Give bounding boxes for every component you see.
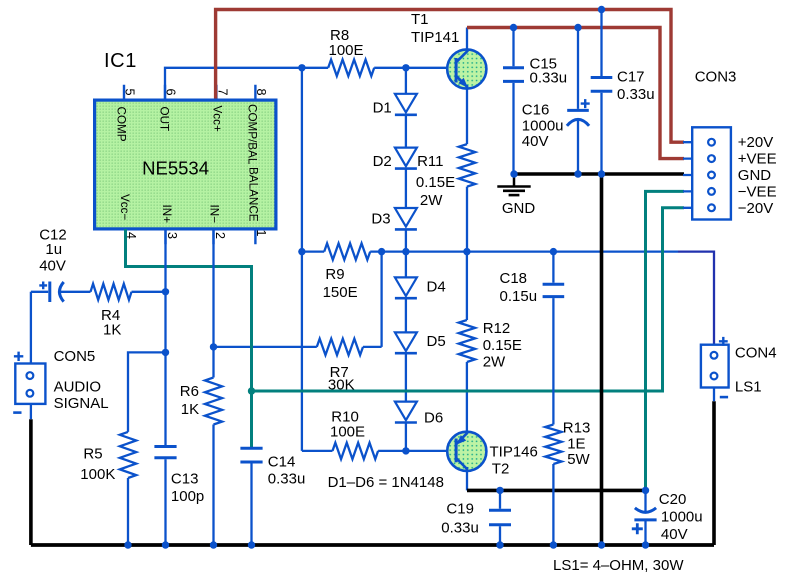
svg-text:1E: 1E (567, 436, 585, 453)
wire R12 to T2 emitter (466, 362, 468, 434)
pin number 1 (254, 230, 268, 237)
wire OUT column x=302 down to R10 row (301, 68, 303, 451)
wire R10 left lead (302, 450, 333, 452)
svg-text:7: 7 (215, 89, 229, 96)
svg-text:LS1: LS1 (735, 379, 762, 396)
svg-text:40V: 40V (39, 258, 66, 275)
svg-text:AUDIO: AUDIO (54, 379, 102, 396)
capacitor C14 (240, 448, 305, 545)
node rail C13 (162, 541, 169, 548)
svg-text:CON4: CON4 (735, 345, 777, 362)
svg-text:−VEE: −VEE (738, 183, 777, 200)
wire T2 collector lead (466, 467, 468, 490)
svg-text:IC1: IC1 (104, 50, 137, 72)
svg-text:0.15E: 0.15E (483, 337, 522, 354)
svg-text:T1: T1 (411, 11, 429, 28)
wire OUT pin6 riser to R8 node (165, 68, 302, 100)
svg-text:5: 5 (122, 89, 136, 96)
wire output to CON4 plus (678, 252, 714, 345)
connector CON3 (692, 69, 736, 220)
node +20V (738, 134, 773, 151)
svg-text:2W: 2W (420, 192, 443, 209)
wire IN- column pin2 (212, 229, 214, 378)
wire CON5 minus stub (30, 404, 32, 419)
svg-text:5W: 5W (567, 451, 590, 468)
svg-text:OUT: OUT (157, 107, 170, 132)
node +VEE (738, 151, 777, 168)
wire CON4 minus black (712, 401, 716, 545)
node output diode (402, 248, 409, 255)
node output R11 R12 (463, 248, 470, 255)
node rail R6 (210, 541, 217, 548)
diode D5 (395, 332, 446, 353)
wire -20V teal from pin4 (126, 229, 252, 448)
svg-text:C20: C20 (659, 491, 687, 508)
pin number 2 (213, 232, 227, 239)
svg-text:R6: R6 (180, 383, 199, 400)
svg-text:T2: T2 (492, 461, 510, 478)
node IN+ R4 (162, 288, 169, 295)
node R8 right (402, 64, 409, 71)
node rail C20 (642, 541, 649, 548)
svg-text:D1: D1 (373, 100, 392, 117)
capacitor C13 (154, 229, 204, 545)
svg-text:COMP/BAL: COMP/BAL (246, 104, 259, 165)
svg-text:2: 2 (213, 232, 227, 239)
wire +20V rail dark red (216, 10, 684, 143)
svg-text:1K: 1K (103, 322, 121, 339)
resistor R10 (330, 409, 378, 460)
svg-text:TIP141: TIP141 (411, 29, 459, 46)
capacitor C12 (31, 227, 91, 303)
wire R7 right to riser (363, 346, 382, 348)
resistor R6 (180, 378, 222, 425)
CON3 pin stubs (683, 142, 692, 208)
svg-text:1u: 1u (45, 241, 62, 258)
svg-text:0.33u: 0.33u (617, 86, 655, 103)
resistor R13 (545, 420, 590, 469)
node GND C16 (574, 170, 581, 177)
svg-text:0.33u: 0.33u (441, 520, 479, 537)
diode D2 (373, 148, 417, 170)
node +VEE C16 (574, 24, 581, 31)
wire CON4 minus stub (713, 388, 715, 402)
pin label COMP (115, 107, 128, 142)
svg-text:100E: 100E (330, 424, 365, 441)
wire IN- node to R7 (214, 346, 317, 348)
svg-text:1000u: 1000u (661, 509, 703, 526)
resistor R11 (416, 144, 475, 209)
svg-text:C19: C19 (446, 501, 474, 518)
svg-text:1000u: 1000u (522, 118, 564, 135)
capacitor C15 (503, 28, 567, 175)
wire GND column black (600, 174, 604, 545)
svg-text:C17: C17 (617, 69, 645, 86)
wire CON5 minus black (29, 419, 33, 545)
pin label IN- (208, 205, 221, 224)
resistor R8 (328, 27, 374, 76)
svg-text:D5: D5 (427, 333, 446, 350)
svg-text:0.15u: 0.15u (500, 288, 538, 305)
node -20V (738, 200, 773, 217)
pin label BALANCE (247, 167, 260, 222)
resistor R4 (91, 284, 132, 339)
pin label COMP/BAL (246, 104, 259, 165)
wire -VEE teal (646, 191, 685, 490)
wire output to R12 (466, 252, 468, 320)
svg-text:+20V: +20V (738, 134, 773, 151)
svg-text:R11: R11 (417, 153, 443, 170)
resistor R12 (459, 320, 522, 371)
wire R11 to output row (466, 187, 468, 252)
svg-text:0.33u: 0.33u (530, 70, 568, 87)
node -VEE (738, 183, 777, 200)
svg-text:100E: 100E (329, 42, 364, 59)
capacitor C19 (441, 490, 511, 545)
connector CON4 (701, 337, 777, 397)
transistor Q1 T1 (411, 11, 486, 89)
capacitor C18 (500, 252, 565, 425)
wire -20V teal branch to CON3 (252, 208, 685, 391)
svg-text:GND: GND (502, 200, 536, 217)
svg-text:D6: D6 (424, 410, 443, 427)
svg-text:IN−: IN− (208, 205, 221, 224)
wire CON5 plus lead (30, 292, 32, 364)
wire R4 to pin3 column (132, 291, 166, 293)
pin number 4 (124, 232, 138, 239)
svg-text:0.33u: 0.33u (268, 471, 306, 488)
node GND C17 (598, 170, 605, 177)
diode D3 (371, 208, 417, 229)
wire output row (370, 250, 678, 252)
svg-text:40V: 40V (522, 133, 549, 150)
note D1-D6 (328, 474, 444, 491)
svg-text:Vcc−: Vcc− (118, 194, 131, 220)
diode D6 (395, 402, 443, 427)
node R8 left (298, 64, 305, 71)
wire GND row black (514, 172, 684, 176)
wire T1 collector (466, 28, 468, 53)
node GND (738, 167, 772, 184)
svg-text:3: 3 (165, 232, 179, 239)
svg-text:8: 8 (254, 89, 268, 96)
wire T2 base (406, 450, 456, 452)
wire diode chain column (405, 68, 407, 451)
node IN- R7 (210, 343, 217, 350)
pin number 8 (254, 89, 268, 96)
wire output row left (302, 250, 324, 252)
wire R5 to rail (127, 478, 129, 545)
pin label IN+ (160, 205, 173, 224)
svg-text:COMP: COMP (115, 107, 128, 142)
node rail R13 (550, 541, 557, 548)
svg-text:IN+: IN+ (160, 205, 173, 224)
ground (497, 174, 535, 217)
node +VEE C15 (510, 24, 517, 31)
svg-text:C13: C13 (171, 471, 199, 488)
capacitor C17 (591, 10, 655, 175)
wire ground rail bottom black (31, 543, 714, 547)
svg-text:D2: D2 (373, 153, 392, 170)
wire R6 to rail (212, 425, 214, 546)
pin number 7 (215, 89, 229, 96)
svg-text:100p: 100p (171, 488, 204, 505)
node C19 top (496, 487, 503, 494)
resistor R9 (323, 243, 371, 301)
node rail C19 (496, 541, 503, 548)
node output R9 left (298, 248, 305, 255)
wire +VEE rail dark red (467, 28, 684, 159)
svg-text:D1–D6 = 1N4148: D1–D6 = 1N4148 (328, 474, 444, 491)
diode D1 (373, 94, 417, 117)
node GND C15 (510, 170, 517, 177)
svg-text:150E: 150E (323, 284, 358, 301)
svg-text:R12: R12 (483, 320, 511, 337)
svg-text:0.15E: 0.15E (416, 174, 455, 191)
pin number 5 (122, 89, 136, 96)
svg-text:R9: R9 (325, 266, 344, 283)
node T2 base (402, 447, 409, 454)
IC1 pin stubs (124, 85, 255, 245)
pin label Vcc+ (211, 106, 224, 132)
wire R7 riser (380, 252, 382, 347)
svg-text:LS1= 4–OHM, 30W: LS1= 4–OHM, 30W (553, 557, 684, 574)
svg-text:1K: 1K (181, 401, 199, 418)
pin number 6 (163, 89, 177, 96)
svg-text:NE5534: NE5534 (142, 158, 209, 179)
node rail R5 (124, 541, 131, 548)
svg-text:TIP146: TIP146 (490, 444, 538, 461)
wire R13 to rail (552, 464, 554, 545)
svg-text:−20V: −20V (738, 200, 773, 217)
note LS1 (553, 557, 684, 574)
pin label OUT (157, 107, 170, 132)
svg-text:6: 6 (163, 89, 177, 96)
svg-text:C18: C18 (500, 270, 528, 287)
pin number 3 (165, 232, 179, 239)
svg-text:100K: 100K (80, 466, 115, 483)
svg-text:SIGNAL: SIGNAL (54, 395, 109, 412)
resistor R7 (317, 339, 363, 394)
wire R8 right to T1 base (374, 67, 456, 69)
wire R10 right to T2 base node (378, 450, 406, 452)
svg-text:D3: D3 (371, 211, 390, 228)
svg-text:GND: GND (738, 167, 772, 184)
node C20 top (642, 487, 649, 494)
wire node to R8 left (302, 67, 328, 69)
node IN+ R5 (162, 349, 169, 356)
connector CON5 (13, 348, 108, 413)
svg-text:2W: 2W (483, 354, 506, 371)
node rail GND (598, 541, 605, 548)
wire R5 link (128, 352, 166, 432)
svg-text:40V: 40V (661, 526, 688, 543)
node output C18 (550, 248, 557, 255)
svg-text:+VEE: +VEE (738, 151, 777, 168)
svg-text:CON5: CON5 (54, 348, 96, 365)
transistor Q2 T2 (447, 432, 538, 478)
svg-text:R5: R5 (83, 446, 102, 463)
svg-text:C16: C16 (522, 102, 550, 119)
svg-text:D4: D4 (427, 279, 446, 296)
svg-text:Vcc+: Vcc+ (211, 106, 224, 132)
svg-text:1: 1 (254, 230, 268, 237)
svg-text:BALANCE: BALANCE (247, 167, 260, 222)
capacitor C16 (522, 28, 590, 175)
diode D4 (395, 277, 446, 298)
node output R7 (378, 248, 385, 255)
wire T1 emitter to R11 (466, 85, 468, 144)
svg-text:C14: C14 (268, 454, 296, 471)
node +20V C17 (598, 6, 605, 13)
node rail C14 (248, 541, 255, 548)
svg-text:R13: R13 (563, 420, 591, 437)
svg-text:CON3: CON3 (695, 69, 737, 86)
node teal branch (248, 387, 255, 394)
pin label Vcc- (118, 194, 131, 220)
node junction dots (124, 6, 649, 549)
wire T2 collector row black (467, 489, 646, 493)
IC op-amp U1 IC1 (95, 50, 276, 229)
resistor R5 (80, 432, 136, 483)
capacitor C20 (632, 490, 703, 545)
